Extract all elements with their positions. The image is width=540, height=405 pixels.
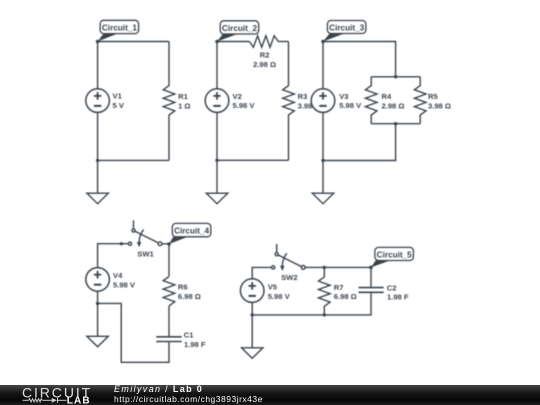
footer bar [0,385,540,405]
ground c5 [242,348,263,359]
voltage source V3 [311,89,335,113]
svg-text:6.98 Ω: 6.98 Ω [178,292,201,301]
CIRCUIT 3 [311,42,426,204]
svg-text:5.98 V: 5.98 V [233,101,256,110]
resistor R3 [283,42,295,161]
wire top-left c2 [217,41,249,43]
svg-text:LAB: LAB [67,396,91,405]
CIRCUIT 4 [86,220,182,362]
svg-text:6.98 Ω: 6.98 Ω [334,292,357,301]
node tag Circuit_4 [167,223,211,245]
node tag Circuit_5 [369,247,413,269]
capacitor C1 [156,337,181,342]
svg-text:5.98 V: 5.98 V [268,292,291,301]
wire right lower c3 [323,124,396,161]
switch SW1 [128,220,162,247]
wire R6 to C1 [168,306,170,336]
svg-text:Circuit_2: Circuit_2 [222,24,257,33]
logo wire resistor diode [23,398,67,403]
svg-text:V1: V1 [113,92,123,101]
svg-text:V3: V3 [339,92,348,101]
svg-text:R7: R7 [334,283,344,292]
wire ground stem c1 [97,160,99,193]
node tag Circuit_2 [215,21,259,44]
svg-text:1 Ω: 1 Ω [178,101,190,110]
wire bottom c2 [217,159,289,161]
svg-text:3.98 Ω: 3.98 Ω [428,101,451,110]
ground c2 [206,193,227,204]
voltage source V5 [240,279,264,303]
switch SW2 [272,244,306,271]
wire top c1 [98,41,169,43]
svg-text:C2: C2 [387,283,397,292]
voltage source V1 [86,89,110,113]
wire bottom c1 [98,159,169,161]
wire ground stem c2 [216,160,218,193]
resistor R1 [163,42,175,161]
svg-text:Circuit_4: Circuit_4 [174,227,209,236]
ground c3 [312,193,333,204]
footer logo CIRCUIT LAB [0,383,110,405]
svg-text:R4: R4 [382,92,392,101]
junction dots c5 [251,266,326,317]
wire top-right c2 [278,41,288,43]
resistor R2 [249,36,278,48]
svg-text:SW1: SW1 [137,250,154,259]
wire ground stem c4 [97,303,99,336]
wire switch to node c4 [162,243,169,245]
wire top c3 [323,42,396,77]
resistor R7 [319,267,331,315]
svg-text:5.98 V: 5.98 V [339,101,362,110]
svg-text:Circuit_5: Circuit_5 [377,251,412,260]
svg-text:Circuit_1: Circuit_1 [102,24,137,33]
wire ground stem c3 [322,161,324,194]
wire V5 bottom c5 [251,302,253,315]
wire right upper c4 [168,244,170,276]
svg-text:R2: R2 [260,51,270,60]
footer title text [114,385,203,394]
svg-text:SW2: SW2 [281,273,297,282]
wire left upper c2 [216,42,218,90]
wire V4 bottom c4 [97,291,99,303]
ground c4 [87,336,108,347]
wire switch to node c5 [305,266,371,268]
resistor R4 [365,77,377,124]
svg-text:R6: R6 [178,282,188,291]
svg-text:C1: C1 [184,331,194,340]
wire left lower c1 [97,112,99,160]
svg-text:5.98 V: 5.98 V [113,280,136,289]
junction dots c4 [96,242,123,305]
svg-text:Circuit_3: Circuit_3 [329,24,364,33]
resistor R6 [163,277,175,306]
junction dots c3 [321,75,397,162]
parallel bottom rail c3 [371,123,420,125]
voltage source V4 [86,268,110,292]
svg-text:5 V: 5 V [113,101,125,110]
svg-text:2.98 Ω: 2.98 Ω [253,60,276,69]
svg-text:V2: V2 [233,92,242,101]
wire C2 column upper c5 [370,267,372,287]
capacitor C2 [359,288,384,293]
wire C2 down and bottom c5 [252,293,371,315]
svg-text:R1: R1 [178,92,188,101]
svg-text:1.98 F: 1.98 F [387,292,409,301]
wire left lower c3 [322,112,324,160]
svg-text:R3: R3 [298,92,308,101]
svg-text:1.98 F: 1.98 F [184,340,206,349]
junction dots c1/c2 [96,159,219,162]
resistor R5 [414,77,426,124]
name tags [96,20,414,269]
wire left lower c2 [216,112,218,160]
wire top-left c5 [252,267,271,278]
wire C1 down and bottom c4 [98,303,169,362]
node tag Circuit_3 [321,21,366,44]
node tag Circuit_1 [96,20,139,43]
svg-text:2.98 Ω: 2.98 Ω [382,101,405,110]
svg-text:V4: V4 [113,271,123,280]
parallel top rail c3 [371,76,420,78]
wire left upper c3 [322,42,324,90]
svg-text:V5: V5 [268,283,278,292]
voltage source V2 [205,89,229,113]
wire left upper c1 [97,42,99,90]
wire ground stem c5 [251,315,253,348]
svg-text:R5: R5 [428,92,438,101]
wire top-left c4 [98,244,129,268]
CIRCUIT 5 [240,244,383,358]
ground c1 [87,193,108,204]
logo diode triangle [52,398,57,403]
